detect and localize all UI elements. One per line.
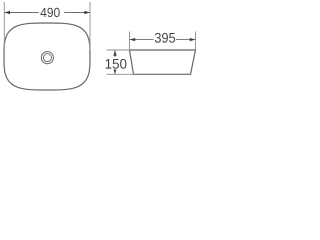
drain inner circle bbox=[43, 54, 51, 62]
dim 490 line bbox=[4, 12, 90, 14]
drain outer circle bbox=[41, 52, 53, 64]
dim 490 extension line left bbox=[3, 2, 5, 50]
dim 395 label bbox=[155, 33, 175, 43]
dim 150 arrow down bbox=[113, 69, 116, 75]
dim 150 line bbox=[114, 50, 116, 74]
dim 490 arrow left bbox=[5, 11, 11, 14]
dim 395 line bbox=[130, 39, 196, 41]
dim 395 extension line right bbox=[195, 32, 197, 51]
dim 150 text knockout bbox=[105, 57, 127, 70]
dim 395 arrow left bbox=[130, 38, 136, 41]
dim 395 arrow right bbox=[190, 38, 196, 41]
dim 490 extension line right bbox=[89, 2, 91, 50]
dim 150 extension line bottom bbox=[107, 73, 134, 75]
basin top view outline bbox=[4, 23, 90, 90]
dim 490 text knockout bbox=[39, 6, 64, 19]
dim 150 arrow up bbox=[113, 50, 116, 56]
dim 490 arrow right bbox=[84, 11, 90, 14]
side view outline bbox=[130, 50, 196, 74]
dim 490 label bbox=[40, 8, 59, 17]
dim 395 text knockout bbox=[154, 32, 177, 44]
dim 150 extension line top bbox=[107, 49, 130, 51]
dim 395 extension line left bbox=[129, 32, 131, 51]
dim 150 label bbox=[106, 59, 127, 69]
